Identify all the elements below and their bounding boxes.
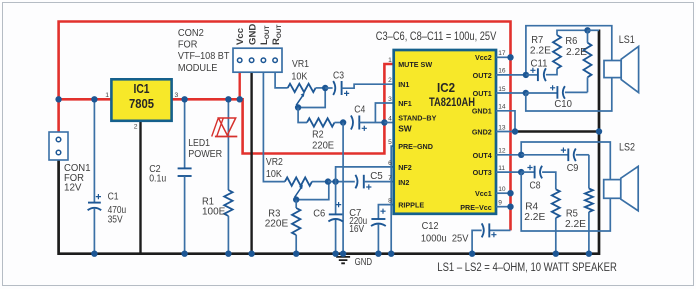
junction R2 C4 ground node [340,119,346,125]
svg-text:NF2: NF2 [398,163,412,172]
svg-text:LS2: LS2 [619,142,635,154]
svg-text:C10: C10 [554,99,572,110]
resistor R2 [298,108,343,152]
svg-text:10: 10 [498,186,506,193]
svg-text:PRE–Vcc: PRE–Vcc [460,203,492,212]
junction node LED1 [225,96,231,102]
svg-text:C8: C8 [530,180,541,191]
resistor R5 [565,155,593,254]
svg-text:IN1: IN1 [398,80,409,89]
svg-text:IC2: IC2 [437,80,455,95]
wire 12V rail from CON1 top, across top, down to IC2 Vcc2 and C12 [59,22,511,231]
junction node C6 gnd [332,251,338,257]
svg-text:7: 7 [388,175,392,182]
junction OUT4 node [518,152,524,158]
junction node C1 [91,96,97,102]
junction node CON2 Vcc [237,96,243,102]
svg-text:C5: C5 [370,171,383,182]
svg-text:3: 3 [175,92,179,99]
svg-text:5: 5 [388,139,392,146]
junction NF2 on IN2 wire [332,178,338,184]
wire OUT3 pin 11 stub [496,171,521,173]
svg-text:13: 13 [498,124,506,131]
junction Vcc1 pin 10 on 12V line [496,190,514,196]
svg-text:12: 12 [498,148,506,155]
junction OUT2 node [523,72,529,78]
junction node pin5 gnd [388,251,394,257]
svg-text:R6: R6 [565,36,577,47]
junction VR1 output node [322,85,328,91]
wire IC1 pin 2 to ground bus [139,121,141,254]
svg-text:C6: C6 [313,209,325,220]
svg-text:MODULE: MODULE [178,63,218,74]
wire Vcc2 pin 17 stub [496,56,511,58]
junction standby node on 5V line [381,119,387,125]
svg-text:2.2E: 2.2E [566,47,587,58]
svg-text:100E: 100E [202,207,225,218]
svg-text:CON2: CON2 [178,28,204,39]
capacitor C8 [521,165,556,191]
wire GND2 pin 13 stub [496,131,515,133]
svg-text:8: 8 [388,198,392,205]
wire GND1 pin 14 link [496,111,515,132]
svg-text:LS1: LS1 [619,34,635,46]
svg-text:C12: C12 [422,221,439,232]
svg-text:FOR: FOR [178,40,198,51]
junction GND1 GND2 node [512,128,518,134]
wire 5V from IC1 output pin 3 to IC2 pin 1 MUTE SW [172,64,394,154]
wire LS2 return from OUT3 [521,172,610,231]
wire R6R7 node to ground line [588,29,600,31]
capacitor C11 [526,59,557,82]
svg-text:R4: R4 [525,201,538,212]
wire NF1 pin 3 link [375,103,393,123]
svg-text:C1: C1 [108,192,119,203]
wire R2-C4 node to ground [342,123,344,254]
svg-text:C4: C4 [354,105,365,116]
junction node R1 gnd [225,251,231,257]
svg-text:GND: GND [355,257,373,268]
svg-text:R7: R7 [531,35,543,46]
voltage regulator IC1 7805 [105,79,178,130]
svg-text:C3: C3 [333,71,344,82]
svg-text:4: 4 [388,116,392,123]
capacitor C9 [521,148,589,175]
resistor R3 [265,200,301,254]
svg-text:2.2E: 2.2E [565,219,586,230]
junction OUT3 node [518,169,524,175]
svg-text:TA8210AH: TA8210AH [429,95,475,109]
svg-text:2: 2 [134,124,138,131]
junction node IC1 out [181,96,187,102]
svg-text:3: 3 [388,96,392,103]
wire ground bus from CON1 bottom along bottom and up right side [59,30,599,254]
ground symbol GND [336,257,372,268]
svg-text:C3–C6, C8–C11 = 100u, 25V: C3–C6, C8–C11 = 100u, 25V [376,30,497,43]
svg-text:Vcc2: Vcc2 [475,53,492,62]
junction OUT1 node [523,90,529,96]
svg-text:SW: SW [398,123,412,133]
svg-text:OUT4: OUT4 [473,151,492,160]
resistor R6 [565,30,591,92]
junction node CON2 gnd [248,251,254,257]
svg-text:IN2: IN2 [398,178,409,187]
svg-text:1000u 25V: 1000u 25V [421,234,469,245]
svg-text:2.2E: 2.2E [530,45,551,56]
junction node C1 gnd [91,251,97,257]
wire CON2 R_OUT to VR1 [275,72,288,88]
junction R6 R7 ground node [584,27,590,33]
svg-text:1: 1 [388,57,392,64]
svg-text:1: 1 [105,92,109,99]
svg-text:12V: 12V [64,183,82,194]
svg-text:POWER: POWER [188,149,222,160]
svg-text:9: 9 [498,200,502,207]
junction ground right line [596,128,602,134]
svg-text:15: 15 [498,86,506,93]
svg-text:R2: R2 [312,130,324,141]
amplifier IC2 TA8210AH [388,50,506,214]
svg-text:RIPPLE: RIPPLE [398,200,424,209]
svg-text:LS1 – LS2 = 4–OHM, 10 WATT SPE: LS1 – LS2 = 4–OHM, 10 WATT SPEAKER [437,260,617,274]
svg-text:LED1: LED1 [188,138,210,149]
wire GND2 pin 13 to right ground line [515,130,599,133]
wire CON2 GND to ground bus [250,72,252,254]
svg-text:7805: 7805 [129,97,154,111]
wire NF2 pin 6 link [336,167,394,182]
svg-text:10K: 10K [291,72,307,83]
capacitor C7 [349,205,394,254]
svg-text:2: 2 [388,77,392,84]
resistor R1 [202,190,233,254]
capacitor C12 [421,221,511,254]
svg-text:2.2E: 2.2E [524,212,545,223]
potentiometer VR1 [288,59,326,108]
junction node C12 gnd [469,251,475,257]
svg-text:GND2: GND2 [472,127,492,136]
capacitor C2 [149,99,191,253]
svg-text:PRE–GND: PRE–GND [398,142,433,151]
junction node R5 gnd [586,251,592,257]
svg-text:6: 6 [388,160,392,167]
junction VR2 output node [325,178,331,184]
svg-text:35V: 35V [108,214,123,225]
potentiometer VR2 [266,157,329,200]
LED LED1 power indicator [188,99,237,190]
svg-text:VR1: VR1 [292,59,309,70]
resistor R4 [524,189,560,253]
svg-text:14: 14 [498,104,506,111]
svg-text:Vcc: Vcc [235,27,246,45]
wire pin 4 stub [384,122,393,124]
wire OUT2 pin 16 to LS1 plus [496,26,612,75]
svg-text:OUT3: OUT3 [473,168,492,177]
connector CON2 for Bluetooth module [178,24,283,74]
speaker LS2 [604,142,639,211]
svg-text:16: 16 [498,68,506,75]
capacitor C3 [325,71,394,96]
capacitor C1 [88,99,127,253]
svg-text:Vcc1: Vcc1 [475,189,492,198]
wire 12V tap to IC1 input pin 1 [59,98,112,101]
svg-text:GND: GND [247,24,258,45]
svg-text:STAND–BY: STAND–BY [398,114,436,123]
svg-text:10K: 10K [266,169,282,180]
svg-text:R5: R5 [566,208,578,219]
svg-text:11: 11 [498,165,505,172]
junction node 12V tap [55,96,61,102]
wire LS1 return from OUT1 [526,78,612,111]
svg-text:17: 17 [498,50,506,57]
svg-text:16V: 16V [349,224,364,235]
svg-text:220E: 220E [312,140,334,151]
svg-text:0.1u: 0.1u [149,174,166,185]
resistor R7 [530,30,588,68]
svg-text:OUT2: OUT2 [473,71,492,80]
junction PRE-Vcc pin 9 on 12V line [496,204,514,210]
junction node C2 gnd [181,251,187,257]
wire OUT4 pin 12 to LS2 plus [496,142,610,180]
speaker LS1 [604,34,639,93]
wire CON2 Vcc stub to 5V rail [238,72,240,99]
capacitor C5 [328,171,394,190]
svg-text:IC1: IC1 [134,82,150,96]
junction node R3 gnd [293,251,299,257]
svg-text:MUTE SW: MUTE SW [398,60,432,69]
svg-text:C9: C9 [567,163,579,174]
svg-text:VR2: VR2 [266,157,283,168]
connector CON1 [49,132,91,194]
svg-text:VTF–108 BT: VTF–108 BT [178,51,230,62]
wire CON2 L_OUT to VR2 [263,72,285,181]
capacitor C10 [526,85,588,110]
svg-text:OUT1: OUT1 [473,89,492,98]
junction node R4 gnd [553,251,559,257]
wire OUT1 pin 15 stub [496,92,526,94]
wire PRE-GND pin 5 to ground bus [391,146,394,254]
junction Vcc2 on 12V line [507,54,513,60]
svg-text:NF1: NF1 [398,99,412,108]
svg-text:C11: C11 [531,59,548,70]
junction VR1 wiper node [295,104,301,110]
junction node C7 gnd [375,251,381,257]
junction VR2 wiper node [293,196,299,202]
capacitor C6 [313,182,343,254]
junction node GND symbol [340,251,346,257]
svg-text:220E: 220E [265,219,289,230]
capacitor C4 [351,105,385,131]
